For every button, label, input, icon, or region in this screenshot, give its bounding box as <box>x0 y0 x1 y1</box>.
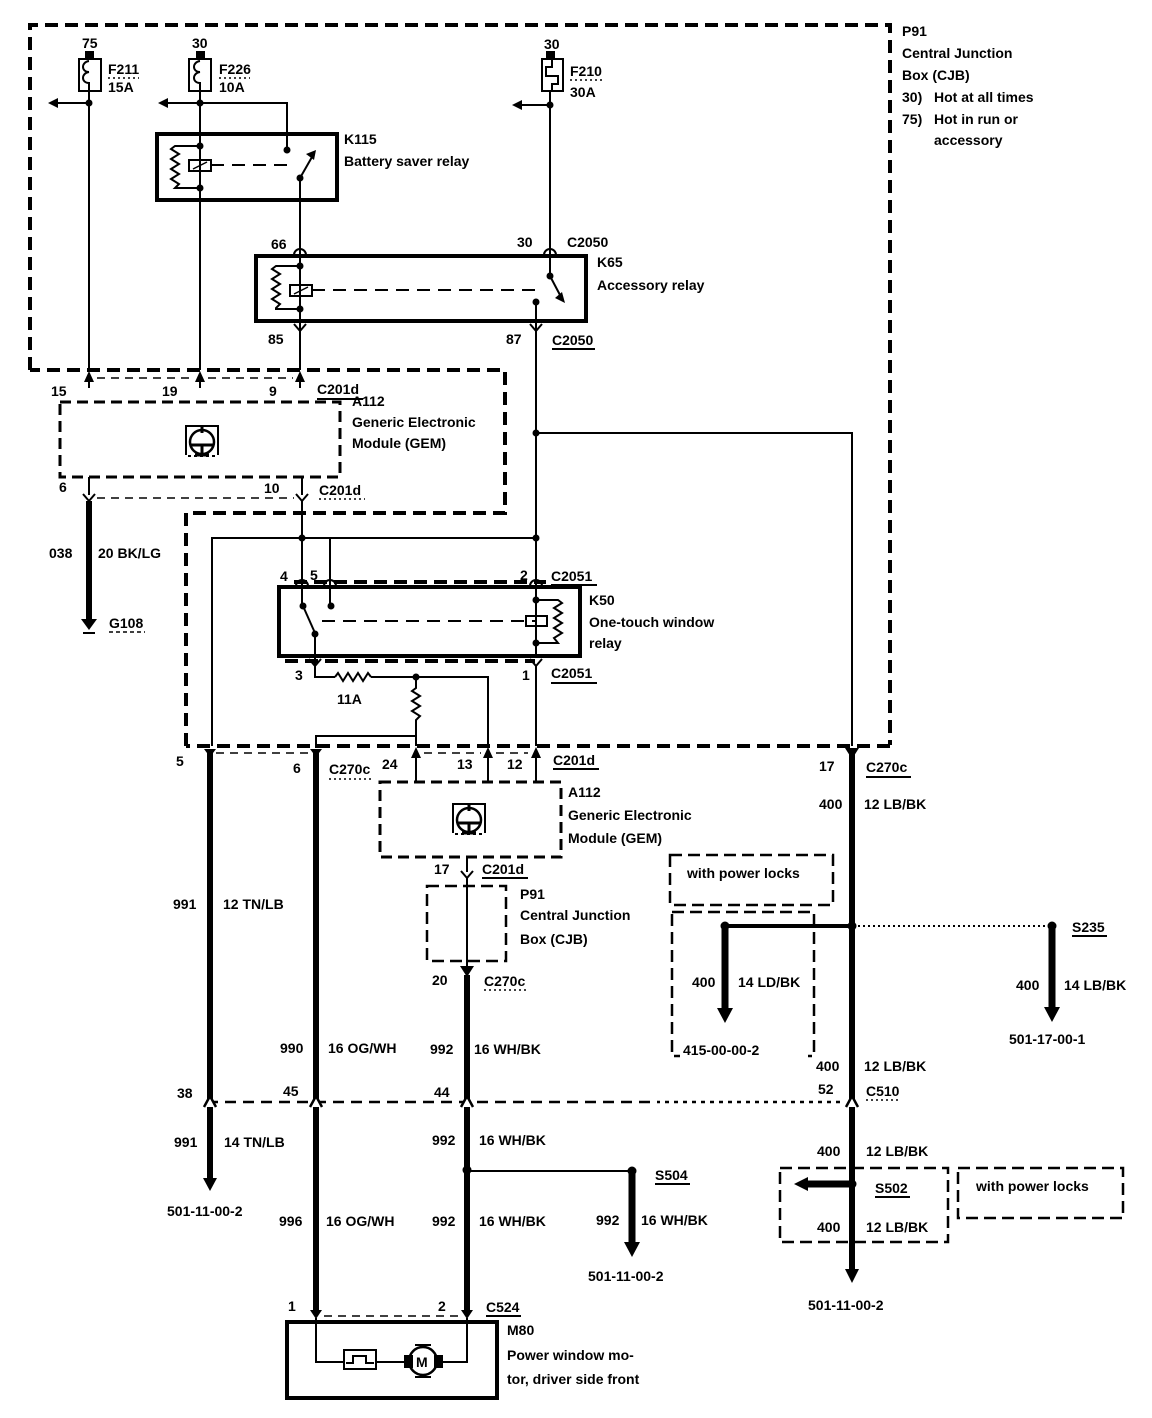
svg-text:12 LB/BK: 12 LB/BK <box>864 796 926 812</box>
splice S235 <box>1009 919 1126 1047</box>
junction dot F210 branch <box>547 102 554 109</box>
motor M80 box <box>287 1322 640 1398</box>
K65 switch arm with arrowhead <box>547 273 566 304</box>
K65 pin 66 connector bump <box>271 236 306 255</box>
wire fuse F210 output down to K65 pin 30 <box>549 91 551 276</box>
svg-text:C510: C510 <box>866 1083 900 1099</box>
resistor 11A <box>335 673 371 707</box>
svg-text:30A: 30A <box>570 84 596 100</box>
svg-text:20: 20 <box>432 972 448 988</box>
C201d pin 17 below lower GEM <box>434 857 528 878</box>
labels 400 12 LB/BK above C510 <box>816 1058 926 1074</box>
with power locks box (upper) <box>670 855 833 905</box>
wire K115 switch output down to K65 pin 66 <box>299 178 301 266</box>
svg-text:C2050: C2050 <box>552 332 593 348</box>
svg-text:P91: P91 <box>902 23 927 39</box>
module A112 GEM dashed box (upper) <box>60 393 476 477</box>
svg-text:Hot at all times: Hot at all times <box>934 89 1034 105</box>
svg-text:400: 400 <box>816 1058 840 1074</box>
svg-text:400: 400 <box>1016 977 1040 993</box>
relay K50 One-touch window relay box <box>279 587 714 656</box>
svg-text:Power window mo-: Power window mo- <box>507 1347 634 1363</box>
fuse F210 30A <box>542 36 603 100</box>
P91 CJB small dashed box <box>427 886 630 961</box>
main wire bottom arrow to 501-11-00-2 <box>808 1269 884 1313</box>
svg-text:C270c: C270c <box>866 759 907 775</box>
svg-text:accessory: accessory <box>934 132 1003 148</box>
junction dot pin10 wire on bus <box>299 535 306 542</box>
junction dot F226 branch <box>197 100 204 107</box>
svg-text:16 WH/BK: 16 WH/BK <box>641 1212 708 1228</box>
svg-text:Generic Electronic: Generic Electronic <box>568 807 692 823</box>
GEM icon (lower) <box>453 804 485 834</box>
C2050 pin 30 connector bump <box>517 234 608 255</box>
junction dot resistor node <box>413 674 420 681</box>
wire K50 pin 4 from bus <box>301 538 303 606</box>
K50 coil resistor zigzag (right) <box>536 600 562 643</box>
K50 pin 5 stub contact dot <box>328 603 335 610</box>
labels 400 12 LB/BK above S502 <box>817 1143 928 1159</box>
motor internal wiring pin 1 <box>316 1318 344 1362</box>
wire branch 87 feed to C270c pin 17 <box>536 433 852 746</box>
with power locks box (lower) <box>958 1168 1123 1218</box>
wire 992 16 WH/BK (C270c pin 20) <box>430 975 541 1313</box>
svg-text:2: 2 <box>438 1298 446 1314</box>
svg-text:501-11-00-2: 501-11-00-2 <box>808 1297 884 1313</box>
svg-text:Central Junction: Central Junction <box>902 45 1012 61</box>
svg-text:C201d: C201d <box>319 482 361 498</box>
svg-text:15A: 15A <box>108 79 134 95</box>
ground G108 <box>81 615 145 633</box>
svg-text:038: 038 <box>49 545 73 561</box>
svg-text:16 OG/WH: 16 OG/WH <box>328 1040 396 1056</box>
wire K50 pin 2 through coil <box>535 582 537 656</box>
svg-text:75: 75 <box>82 35 98 51</box>
wire K50 pin 5 from bus <box>329 538 331 606</box>
K65 coil element box <box>290 285 312 296</box>
svg-text:14 LB/BK: 14 LB/BK <box>1064 977 1126 993</box>
K65 coil resistor zigzag <box>272 266 300 309</box>
svg-text:16 OG/WH: 16 OG/WH <box>326 1213 394 1229</box>
svg-text:S502: S502 <box>875 1180 908 1196</box>
svg-text:K50: K50 <box>589 592 615 608</box>
wire branch to splice S504 <box>463 1166 708 1285</box>
GEM icon (upper) <box>186 426 218 456</box>
C2050 lower label <box>552 332 595 349</box>
svg-text:14 TN/LB: 14 TN/LB <box>224 1134 285 1150</box>
svg-text:9: 9 <box>269 383 277 399</box>
svg-text:One-touch window: One-touch window <box>589 614 714 630</box>
svg-text:Hot in run or: Hot in run or <box>934 111 1019 127</box>
svg-text:3: 3 <box>295 667 303 683</box>
module A112 GEM dashed box (lower) <box>380 782 692 857</box>
wire 996 16 OG/WH lower labels <box>279 1213 394 1229</box>
K65 coil terminal dots <box>297 263 304 270</box>
C270c pin 20 exit arrow <box>432 966 529 990</box>
svg-text:12 LB/BK: 12 LB/BK <box>866 1219 928 1235</box>
wire F210 feed branch with left arrow <box>512 100 550 110</box>
wire F226 feed branch to K115 coil feed, left arrow <box>158 98 287 150</box>
wire K65 coil output pin 85 down to C201d pin 9 <box>299 309 301 370</box>
K65 dashed actuation link <box>312 289 540 291</box>
svg-text:Battery saver relay: Battery saver relay <box>344 153 470 169</box>
C201d connector row (pins 15,19,9) at CJB lower edge <box>51 371 363 399</box>
wire horizontal bus y538 to K50 pins 4,5 <box>212 538 536 746</box>
C2051 connector row at K50 bottom <box>285 659 597 683</box>
svg-text:C270c: C270c <box>484 973 525 989</box>
svg-text:45: 45 <box>283 1083 299 1099</box>
wire K65 pin 87 down via C2050 to K50 pin 2 <box>535 302 537 582</box>
svg-text:Module (GEM): Module (GEM) <box>568 830 662 846</box>
svg-text:Central Junction: Central Junction <box>520 907 630 923</box>
svg-text:with power locks: with power locks <box>975 1178 1089 1194</box>
svg-text:16 WH/BK: 16 WH/BK <box>479 1132 546 1148</box>
junction dot 87 feed at y538 <box>533 535 540 542</box>
svg-text:501-17-00-1: 501-17-00-1 <box>1009 1031 1085 1047</box>
svg-text:Module (GEM): Module (GEM) <box>352 435 446 451</box>
K65 pin 85 exit chevron <box>268 324 542 347</box>
svg-text:992: 992 <box>432 1132 456 1148</box>
K50 coil element box <box>526 616 547 626</box>
K115 feed contact dot <box>284 147 291 154</box>
motor M <box>404 1345 443 1377</box>
svg-text:Box (CJB): Box (CJB) <box>520 931 588 947</box>
svg-text:52: 52 <box>818 1081 834 1097</box>
svg-text:12 LB/BK: 12 LB/BK <box>866 1143 928 1159</box>
K115 coil resistor zigzag <box>171 146 200 188</box>
junction dot 87 feed at y433 <box>533 430 540 437</box>
svg-text:17: 17 <box>819 758 835 774</box>
C270c / C201d connector row at CJB bottom edge <box>176 753 374 779</box>
svg-text:4: 4 <box>280 568 288 584</box>
svg-text:990: 990 <box>280 1040 304 1056</box>
svg-text:501-11-00-2: 501-11-00-2 <box>588 1268 664 1284</box>
splice S502 dashed box <box>780 1168 948 1242</box>
svg-text:Accessory relay: Accessory relay <box>597 277 705 293</box>
svg-text:5: 5 <box>176 753 184 769</box>
fuse F226 10A <box>189 35 251 95</box>
wire 400 14 LD/BK branch with arrow <box>692 922 857 1024</box>
wire 990 16 OG/WH (C270c pin 6) <box>280 749 396 1313</box>
circuit breaker <box>344 1350 376 1369</box>
wire K50 switch output pin 3 <box>315 634 335 677</box>
svg-text:F210: F210 <box>570 63 602 79</box>
svg-text:17: 17 <box>434 861 450 877</box>
svg-text:C2051: C2051 <box>551 665 592 681</box>
wire dotted branch to S235 <box>858 925 1048 927</box>
svg-text:F226: F226 <box>219 61 251 77</box>
svg-text:Box (CJB): Box (CJB) <box>902 67 970 83</box>
fuse F211 15A <box>79 35 139 95</box>
svg-text:K65: K65 <box>597 254 623 270</box>
svg-text:G108: G108 <box>109 615 143 631</box>
wire 992 16 WH/BK lower labels <box>432 1132 546 1229</box>
K115 switch arm with arrowhead <box>297 150 317 182</box>
K65 pin 87 contact dot <box>533 299 540 306</box>
K50 switch arm <box>300 603 319 638</box>
svg-text:K115: K115 <box>344 131 377 147</box>
svg-text:75): 75) <box>902 111 922 127</box>
svg-text:F211: F211 <box>108 61 139 77</box>
svg-text:992: 992 <box>430 1041 454 1057</box>
svg-text:C524: C524 <box>486 1299 520 1315</box>
svg-text:20 BK/LG: 20 BK/LG <box>98 545 161 561</box>
svg-text:C2050: C2050 <box>567 234 608 250</box>
svg-text:66: 66 <box>271 236 287 252</box>
wire resistor to pin 13 drop <box>371 677 488 746</box>
svg-text:Generic Electronic: Generic Electronic <box>352 414 476 430</box>
svg-text:tor, driver side front: tor, driver side front <box>507 1371 640 1387</box>
svg-text:1: 1 <box>288 1298 296 1314</box>
relay K115 Battery saver relay box <box>157 131 470 200</box>
svg-text:996: 996 <box>279 1213 303 1229</box>
wire fuse F211 output down to C201d pin 15 <box>88 91 90 370</box>
svg-text:M: M <box>416 1354 428 1370</box>
svg-text:A112: A112 <box>352 393 385 409</box>
C201d pins 24,13,12 arrows <box>382 747 599 772</box>
svg-text:85: 85 <box>268 331 284 347</box>
wire fuse F226 output down to C201d pin 19 <box>199 91 201 370</box>
svg-text:991: 991 <box>174 1134 198 1150</box>
svg-text:400: 400 <box>692 974 716 990</box>
svg-text:992: 992 <box>596 1212 620 1228</box>
svg-text:with power locks: with power locks <box>686 865 800 881</box>
svg-text:15: 15 <box>51 383 67 399</box>
svg-text:400: 400 <box>819 796 843 812</box>
svg-text:400: 400 <box>817 1219 841 1235</box>
svg-text:C270c: C270c <box>329 761 370 777</box>
wire 991 14 TN/LB below C510 with arrow to 501-11-00-2 <box>167 1134 285 1219</box>
wire C201d pin 10 down to bus <box>301 501 303 538</box>
svg-text:S235: S235 <box>1072 919 1105 935</box>
svg-text:M80: M80 <box>507 1322 534 1338</box>
wire F211 feed branch with left arrow <box>48 98 89 108</box>
svg-text:A112: A112 <box>568 784 601 800</box>
motor internal wiring pin 2 <box>443 1318 467 1362</box>
wire 400 12 LB/BK (C270c pin 17) <box>819 748 926 1272</box>
svg-text:415-00-00-2: 415-00-00-2 <box>683 1042 759 1058</box>
svg-text:11A: 11A <box>337 691 362 707</box>
svg-text:P91: P91 <box>520 886 545 902</box>
wire K50 pin 1 down to C201d pin 12 <box>535 666 537 746</box>
svg-text:30: 30 <box>517 234 533 250</box>
svg-text:12: 12 <box>507 756 523 772</box>
K115 coil element box <box>189 160 211 171</box>
K115 coil terminal dots <box>197 143 204 150</box>
C270c pin 17 label <box>819 758 911 777</box>
wire breaker to motor <box>376 1361 404 1363</box>
svg-text:6: 6 <box>293 760 301 776</box>
svg-text:24: 24 <box>382 756 398 772</box>
svg-text:44: 44 <box>434 1084 450 1100</box>
svg-text:12 TN/LB: 12 TN/LB <box>223 896 284 912</box>
resistor vertical to C201d pin 24 <box>412 677 420 746</box>
svg-text:C201d: C201d <box>482 861 524 877</box>
C201d connector row (pins 6,10) below GEM <box>59 477 365 501</box>
svg-text:13: 13 <box>457 756 473 772</box>
svg-text:16 WH/BK: 16 WH/BK <box>474 1041 541 1057</box>
svg-text:C201d: C201d <box>553 752 595 768</box>
svg-text:1: 1 <box>522 667 530 683</box>
C510 connector row <box>177 1081 901 1107</box>
svg-text:14 LD/BK: 14 LD/BK <box>738 974 800 990</box>
K115 dashed actuation link <box>211 164 293 166</box>
wire pin6 link from resistor leg <box>316 736 416 748</box>
svg-text:30: 30 <box>192 35 208 51</box>
svg-text:19: 19 <box>162 383 178 399</box>
P91 Central Junction Box (CJB) dashed outline <box>30 25 890 746</box>
svg-text:501-11-00-2: 501-11-00-2 <box>167 1203 243 1219</box>
svg-text:992: 992 <box>432 1213 456 1229</box>
wire K65 coil center through element <box>299 266 301 309</box>
svg-text:12 LB/BK: 12 LB/BK <box>864 1058 926 1074</box>
wire stubs into lower GEM module <box>416 764 536 782</box>
option box 415-00-00-2 <box>672 912 814 1058</box>
K50 coil terminal dots <box>533 597 540 604</box>
wire C201d pin17 through small CJB <box>466 878 468 966</box>
junction dot F211 branch <box>86 100 93 107</box>
P91 CJB title text <box>902 23 1034 148</box>
svg-text:87: 87 <box>506 331 522 347</box>
svg-text:16 WH/BK: 16 WH/BK <box>479 1213 546 1229</box>
wire 991 12 TN/LB (C270c pin 5) <box>173 749 284 1180</box>
K50 dashed actuation link <box>322 620 536 622</box>
svg-text:991: 991 <box>173 896 197 912</box>
wire 038 20 BK/LG to ground <box>49 501 161 621</box>
svg-text:30: 30 <box>544 36 560 52</box>
svg-text:S504: S504 <box>655 1167 688 1183</box>
svg-text:400: 400 <box>817 1143 841 1159</box>
svg-text:30): 30) <box>902 89 922 105</box>
svg-text:6: 6 <box>59 479 67 495</box>
svg-text:relay: relay <box>589 635 622 651</box>
svg-text:10A: 10A <box>219 79 245 95</box>
svg-text:38: 38 <box>177 1085 193 1101</box>
connector C524 row at motor <box>288 1298 521 1319</box>
C2051 connector row at K50 top <box>280 567 597 586</box>
svg-text:10: 10 <box>264 480 280 496</box>
svg-text:C2051: C2051 <box>551 568 592 584</box>
relay K65 Accessory relay box <box>256 254 705 321</box>
